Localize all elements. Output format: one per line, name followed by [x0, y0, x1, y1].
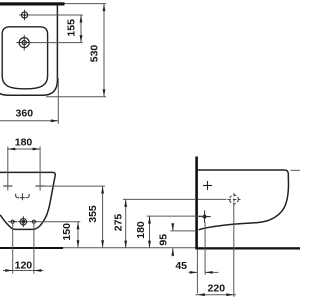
svg-text:530: 530	[89, 45, 101, 63]
svg-text:155: 155	[66, 19, 78, 37]
svg-text:95: 95	[158, 234, 170, 246]
svg-text:45: 45	[175, 260, 187, 272]
svg-text:150: 150	[61, 223, 73, 241]
svg-text:180: 180	[15, 137, 33, 149]
svg-text:355: 355	[87, 205, 99, 223]
svg-text:180: 180	[135, 221, 147, 239]
svg-text:220: 220	[208, 282, 226, 294]
svg-text:275: 275	[113, 214, 125, 232]
svg-text:360: 360	[16, 108, 34, 120]
svg-text:120: 120	[15, 259, 33, 271]
